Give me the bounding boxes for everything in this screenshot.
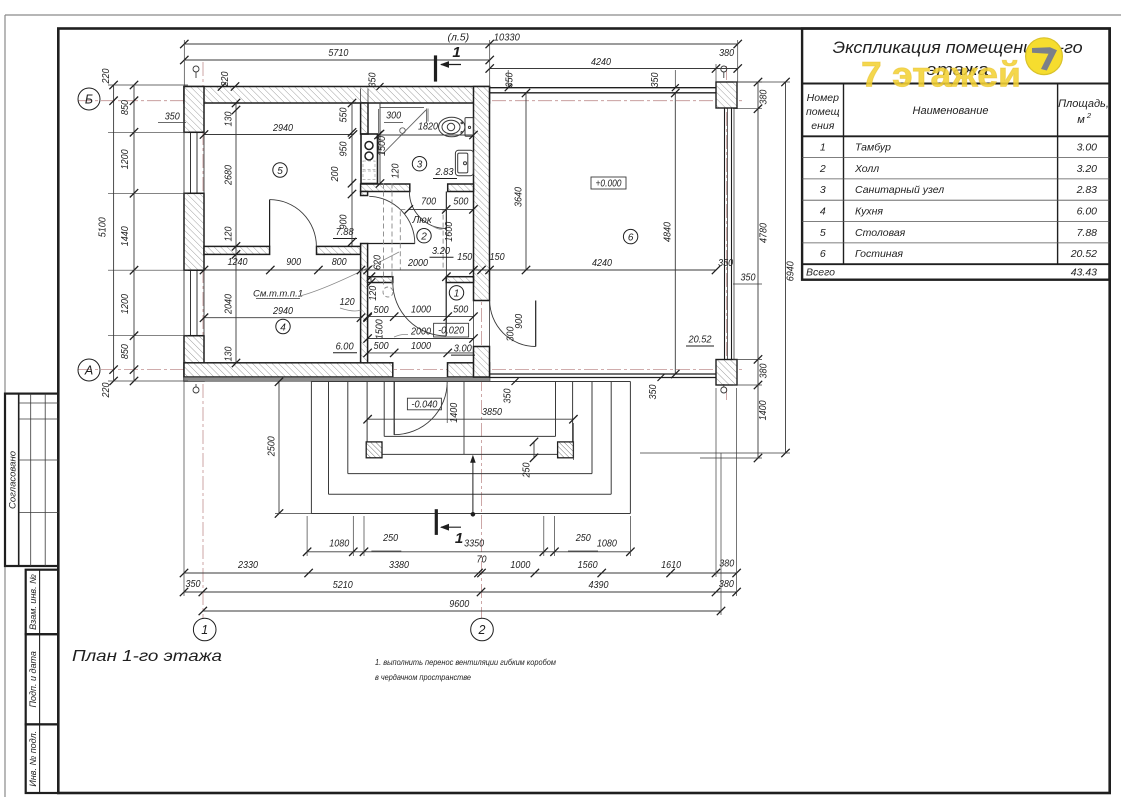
- svg-text:1560: 1560: [578, 559, 598, 571]
- dim 350 below tambour: [512, 378, 519, 385]
- dim 1400 right: [757, 385, 759, 458]
- porch top edge line: [311, 381, 630, 383]
- svg-text:500: 500: [374, 341, 389, 352]
- svg-text:1. выполнить перенос вентиляци: 1. выполнить перенос вентиляции гибким к…: [375, 658, 556, 667]
- wall outer bottom left segment: [184, 363, 393, 377]
- door tambour north leaf and arc: [445, 283, 447, 336]
- svg-text:350: 350: [741, 273, 756, 284]
- svg-text:20.52: 20.52: [688, 334, 712, 346]
- svg-text:1000: 1000: [411, 340, 431, 352]
- row 500 1000: [368, 352, 474, 354]
- svg-text:2.83: 2.83: [435, 166, 454, 178]
- bottom row4 overall 9600: [203, 610, 721, 612]
- svg-text:6.00: 6.00: [1077, 205, 1098, 217]
- door threshold tambour-living: [474, 300, 490, 302]
- svg-text:(л.5): (л.5): [447, 31, 469, 43]
- svg-text:300: 300: [386, 111, 401, 122]
- row 500 1000 500: [368, 316, 474, 318]
- porch step rect 1: [310, 382, 312, 514]
- wall stub above shaft: [361, 103, 368, 134]
- table total row: [802, 263, 1109, 265]
- table rows: [802, 157, 1109, 159]
- title block: Vzam inv N section: [26, 570, 59, 635]
- dim overall 10330: [184, 43, 737, 45]
- tambour north wall right stub: [446, 277, 473, 283]
- svg-text:2: 2: [819, 163, 826, 175]
- bathroom south wall right stub: [448, 184, 474, 192]
- dim 120 vertical: [370, 277, 372, 283]
- svg-text:Подп. и дата: Подп. и дата: [28, 651, 38, 707]
- dim 3640 vertical: [525, 93, 527, 270]
- svg-text:120: 120: [391, 163, 402, 178]
- svg-text:7 этажей: 7 этажей: [861, 56, 1021, 95]
- svg-text:2040: 2040: [224, 294, 235, 315]
- title block: Podp i data section: [26, 634, 59, 724]
- svg-text:План 1-го этажа: План 1-го этажа: [72, 648, 222, 665]
- chain x352: [351, 103, 353, 246]
- svg-text:в чердачном пространстве: в чердачном пространстве: [375, 673, 471, 682]
- axis B horizontal: [78, 100, 745, 102]
- svg-text:1080: 1080: [329, 537, 349, 549]
- svg-text:Всего: Всего: [806, 267, 835, 279]
- svg-text:700: 700: [421, 196, 436, 208]
- svg-text:150: 150: [490, 252, 505, 263]
- room 2 circle: [417, 229, 431, 243]
- section mark bottom: [435, 509, 438, 535]
- svg-text:120: 120: [224, 226, 235, 241]
- sink: [455, 150, 473, 175]
- svg-text:5: 5: [277, 166, 283, 177]
- svg-text:1000: 1000: [411, 304, 431, 316]
- dim 1500 shaft vertical: [379, 103, 381, 184]
- axis circle B: [78, 88, 100, 110]
- svg-text:Номер: Номер: [807, 92, 839, 104]
- svg-text:900: 900: [286, 256, 301, 268]
- svg-text:350: 350: [718, 258, 733, 269]
- svg-text:1200: 1200: [120, 149, 131, 169]
- watermark logo: [1026, 38, 1063, 75]
- svg-text:500: 500: [453, 195, 468, 207]
- bathroom south wall left segment: [361, 184, 410, 192]
- column top right: [716, 82, 737, 108]
- dim 350 below veranda wall: [658, 374, 665, 381]
- wall tambour west: [361, 244, 368, 363]
- wall outer right lower: [474, 347, 490, 378]
- top extension lines: [183, 40, 185, 87]
- svg-text:500: 500: [453, 305, 468, 316]
- wall outer right upper: [474, 87, 490, 301]
- level -0.020: [434, 323, 469, 337]
- room 3 circle: [412, 157, 426, 171]
- svg-text:2000: 2000: [410, 326, 431, 338]
- svg-text:2: 2: [478, 623, 486, 637]
- svg-text:3.20: 3.20: [1077, 163, 1098, 175]
- section mark top: [434, 55, 437, 81]
- svg-text:380: 380: [758, 363, 769, 378]
- axis circle 1: [193, 618, 216, 641]
- left chain segments: [133, 85, 135, 381]
- svg-text:43.43: 43.43: [1071, 267, 1097, 279]
- svg-text:250: 250: [382, 533, 398, 544]
- table outer border: [802, 29, 1109, 280]
- svg-text:250: 250: [522, 462, 533, 478]
- svg-text:1600: 1600: [444, 221, 455, 241]
- level +0.000: [591, 177, 626, 189]
- svg-text:3.00: 3.00: [1077, 142, 1098, 154]
- room 1 circle: [449, 286, 463, 300]
- veranda east wall double lines: [724, 108, 726, 360]
- svg-text:Холл: Холл: [854, 163, 879, 175]
- bottom row2 dims: [184, 572, 737, 574]
- svg-text:5210: 5210: [333, 579, 353, 591]
- svg-text:Столовая: Столовая: [855, 227, 906, 239]
- svg-text:350: 350: [650, 72, 661, 87]
- axis A horizontal: [78, 369, 745, 371]
- svg-text:950: 950: [339, 141, 350, 156]
- svg-text:Инв. № подл.: Инв. № подл.: [28, 731, 38, 787]
- dim 5710: [184, 59, 489, 61]
- svg-text:Площадь,: Площадь,: [1058, 98, 1109, 110]
- svg-text:1610: 1610: [661, 559, 681, 571]
- dim 2940 room5: [204, 134, 353, 136]
- axis 1 vertical: [202, 62, 204, 618]
- svg-text:2500: 2500: [267, 436, 278, 457]
- svg-text:5100: 5100: [96, 217, 108, 237]
- svg-text:1: 1: [452, 44, 460, 61]
- svg-text:20.52: 20.52: [1070, 248, 1097, 260]
- wall outer top: [184, 87, 490, 104]
- bottom row1 porch dims: [307, 551, 630, 553]
- svg-text:380: 380: [719, 559, 734, 570]
- title block: Soglasovano table: [5, 394, 58, 566]
- vent shaft with stove: [361, 134, 378, 184]
- svg-text:2.83: 2.83: [1076, 184, 1098, 196]
- window W2 left: [184, 269, 204, 271]
- svg-text:Санитарный узел: Санитарный узел: [855, 184, 944, 196]
- attic hatch dashed rect: [400, 209, 443, 270]
- window W1 left: [184, 131, 204, 133]
- svg-text:1: 1: [455, 530, 463, 547]
- svg-text:6.00: 6.00: [336, 340, 354, 352]
- dim 5100 outer: [113, 85, 115, 381]
- svg-text:350: 350: [648, 384, 659, 399]
- door tambour-living leaf and arc: [535, 301, 537, 347]
- svg-text:350: 350: [165, 112, 180, 123]
- svg-text:220: 220: [101, 382, 112, 398]
- axis circle 2: [471, 618, 494, 641]
- row 2000: [368, 338, 474, 340]
- svg-text:130: 130: [224, 111, 235, 126]
- svg-text:Гостиная: Гостиная: [855, 248, 903, 260]
- porch step rect 3: [347, 382, 349, 474]
- porch slab rect 5: [383, 382, 385, 437]
- veranda bottom wall double line: [490, 373, 717, 375]
- bottom row3 dims: [184, 591, 737, 593]
- dim 3850: [368, 418, 574, 420]
- svg-text:4: 4: [820, 205, 826, 217]
- svg-text:4: 4: [280, 322, 286, 333]
- svg-text:См.т.т.п.1: См.т.т.п.1: [253, 289, 303, 300]
- door bathroom leaf and arc: [445, 192, 447, 230]
- axis 2 vertical: [481, 262, 483, 618]
- wall outer left piers: [184, 87, 204, 133]
- dim 4840 vertical: [674, 93, 676, 374]
- svg-text:380: 380: [758, 89, 769, 104]
- svg-text:120: 120: [340, 297, 355, 308]
- right extension lines: [733, 81, 762, 83]
- dim 2940 kitchen: [204, 317, 361, 319]
- svg-text:2680: 2680: [224, 165, 235, 186]
- tambour north wall left stub: [368, 277, 393, 283]
- svg-text:1000: 1000: [510, 559, 530, 571]
- svg-text:4240: 4240: [591, 56, 611, 68]
- svg-text:1200: 1200: [120, 294, 131, 314]
- door kitchen-hall leaf and arc: [368, 243, 415, 245]
- svg-text:220: 220: [101, 68, 112, 84]
- door entrance leaf and arc: [393, 382, 395, 435]
- svg-text:2: 2: [1086, 111, 1092, 120]
- svg-text:1820: 1820: [418, 121, 438, 133]
- interior chain x228: [235, 103, 237, 363]
- svg-text:9600: 9600: [449, 598, 469, 610]
- svg-text:Взам. инв. №: Взам. инв. №: [28, 574, 38, 630]
- svg-text:70: 70: [477, 554, 487, 565]
- svg-text:Наименование: Наименование: [913, 105, 989, 117]
- svg-text:500: 500: [374, 305, 389, 316]
- dim 4240 380 top: [490, 68, 738, 70]
- room 5 circle: [273, 163, 287, 177]
- dim 700 500: [409, 208, 474, 210]
- svg-text:200: 200: [330, 166, 341, 182]
- svg-text:3: 3: [820, 184, 826, 196]
- table header grid: [802, 83, 1109, 85]
- svg-text:6: 6: [628, 232, 634, 243]
- svg-text:3640: 3640: [514, 187, 525, 207]
- bottom extension lines: [183, 382, 185, 597]
- svg-text:-0.020: -0.020: [438, 325, 464, 337]
- svg-text:1500: 1500: [375, 319, 386, 339]
- title block: Inv N podl section: [26, 724, 59, 793]
- svg-text:-0.040: -0.040: [411, 398, 437, 410]
- porch column left: [366, 442, 382, 458]
- dim 250 right column: [533, 442, 535, 458]
- svg-text:150: 150: [457, 252, 472, 263]
- svg-text:220: 220: [220, 71, 231, 87]
- svg-text:1440: 1440: [120, 226, 131, 246]
- left extension lines: [108, 84, 188, 86]
- svg-text:Кухня: Кухня: [855, 205, 883, 217]
- dim 6940 outer right: [785, 82, 787, 453]
- svg-text:+0.000: +0.000: [596, 177, 622, 189]
- svg-text:4240: 4240: [592, 257, 612, 269]
- svg-text:ения: ения: [811, 120, 834, 132]
- svg-text:А: А: [84, 364, 93, 378]
- svg-text:850: 850: [120, 100, 131, 115]
- svg-text:1: 1: [820, 142, 826, 154]
- svg-text:2330: 2330: [237, 559, 258, 571]
- svg-text:3350: 3350: [464, 537, 484, 549]
- svg-text:350: 350: [502, 388, 513, 403]
- axis right column vertical: [726, 66, 728, 400]
- svg-text:620: 620: [373, 255, 384, 270]
- toilet: [439, 117, 474, 137]
- svg-text:3: 3: [417, 160, 423, 171]
- svg-text:1: 1: [454, 289, 460, 300]
- svg-text:5710: 5710: [328, 47, 348, 59]
- dim 1600 vertical: [445, 192, 447, 277]
- svg-text:4390: 4390: [589, 579, 609, 591]
- svg-text:Б: Б: [85, 93, 93, 107]
- svg-text:900: 900: [339, 214, 350, 229]
- vent stack symbols: [193, 66, 199, 72]
- dim 2500 porch left: [278, 382, 280, 514]
- svg-text:Люк: Люк: [411, 215, 432, 226]
- svg-text:5: 5: [820, 227, 826, 239]
- svg-text:130: 130: [224, 346, 235, 361]
- main interior dim line y270: [204, 269, 716, 271]
- porch column right: [558, 442, 574, 458]
- vent duct dashed lines: [383, 184, 385, 288]
- svg-text:4780: 4780: [757, 223, 769, 243]
- svg-text:1400: 1400: [758, 400, 769, 420]
- section sight arrow vertical: [472, 460, 474, 514]
- dim 1820: [379, 134, 474, 136]
- svg-text:300: 300: [505, 326, 516, 341]
- svg-text:2940: 2940: [272, 122, 293, 134]
- svg-text:Согласовано: Согласовано: [8, 451, 19, 509]
- svg-text:850: 850: [120, 344, 131, 359]
- svg-text:3850: 3850: [482, 406, 502, 418]
- svg-text:350: 350: [368, 72, 379, 87]
- svg-text:м: м: [1077, 114, 1085, 126]
- svg-text:6940: 6940: [784, 261, 796, 281]
- waterproofing band: [184, 377, 490, 381]
- svg-text:6: 6: [820, 248, 826, 260]
- svg-text:250: 250: [575, 533, 591, 544]
- svg-text:1400: 1400: [449, 402, 460, 422]
- svg-text:1240: 1240: [228, 256, 248, 268]
- svg-text:1080: 1080: [597, 537, 617, 549]
- svg-text:800: 800: [332, 256, 347, 268]
- svg-text:380: 380: [719, 48, 734, 59]
- svg-text:550: 550: [339, 107, 350, 122]
- level -0.040: [407, 398, 441, 410]
- wall outer bottom right segment: [448, 363, 490, 377]
- svg-text:1: 1: [201, 623, 208, 637]
- column bottom right: [716, 360, 737, 386]
- page outer thin border: [5, 14, 1121, 16]
- room 4 circle: [276, 319, 290, 333]
- partition 5/4 left segment: [204, 246, 270, 254]
- shower tray: [379, 108, 429, 153]
- svg-text:120: 120: [368, 285, 379, 300]
- svg-text:3380: 3380: [389, 559, 409, 571]
- svg-text:1500: 1500: [377, 136, 388, 156]
- dim 1400 near entrance: [463, 382, 465, 455]
- svg-text:Тамбур: Тамбур: [855, 142, 891, 154]
- axis circle A: [78, 359, 100, 381]
- right chain 380 4780 380: [757, 82, 759, 385]
- porch step rect 2: [328, 382, 330, 495]
- svg-text:2: 2: [420, 232, 427, 243]
- svg-text:3.20: 3.20: [432, 245, 450, 257]
- svg-text:7.88: 7.88: [1077, 227, 1098, 239]
- svg-text:4840: 4840: [663, 222, 674, 242]
- veranda top wall double line: [490, 87, 717, 89]
- svg-text:2000: 2000: [407, 257, 428, 269]
- door rooms 5-4 leaf and arc: [269, 200, 271, 247]
- svg-text:помещ: помещ: [806, 106, 840, 118]
- porch step rect 4: [366, 382, 368, 455]
- wall tambour west upper step: [361, 192, 368, 196]
- room 6 circle: [623, 229, 637, 243]
- svg-text:350: 350: [186, 579, 201, 590]
- svg-text:10330: 10330: [494, 31, 520, 43]
- svg-text:2940: 2940: [272, 305, 293, 317]
- partition 5/4 right segment: [317, 246, 361, 254]
